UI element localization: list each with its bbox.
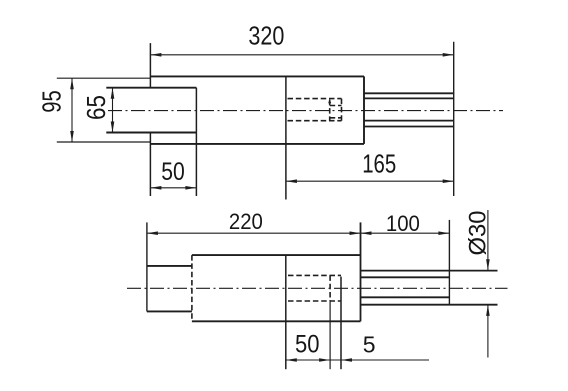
svg-text:320: 320 <box>248 23 284 51</box>
svg-text:5: 5 <box>363 332 376 358</box>
svg-text:220: 220 <box>229 209 263 234</box>
svg-text:65: 65 <box>83 95 111 120</box>
svg-text:165: 165 <box>362 151 396 179</box>
svg-text:100: 100 <box>386 211 420 236</box>
svg-text:50: 50 <box>295 331 320 359</box>
svg-text:95: 95 <box>39 90 67 113</box>
svg-text:Ø30: Ø30 <box>464 211 491 256</box>
svg-text:50: 50 <box>161 158 185 186</box>
